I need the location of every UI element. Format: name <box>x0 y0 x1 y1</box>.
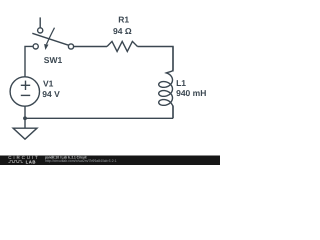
wire: SW1 left terminal to V1 plus <box>25 46 33 77</box>
wire: open stub above SW1 <box>39 17 41 27</box>
footer bar <box>0 156 220 166</box>
junction node <box>23 116 27 120</box>
wire: V1 minus to ground <box>24 106 26 128</box>
svg-text:94 Ω: 94 Ω <box>113 26 132 36</box>
wire: SW1 right terminal to R1 <box>74 46 107 48</box>
svg-text:94 V: 94 V <box>42 89 60 99</box>
switch SW1 <box>32 28 73 50</box>
svg-text:L1: L1 <box>176 78 186 88</box>
svg-text:R1: R1 <box>118 14 129 24</box>
svg-text:SW1: SW1 <box>44 55 63 65</box>
svg-text:940 mH: 940 mH <box>176 88 206 98</box>
svg-text:LAB: LAB <box>26 159 36 164</box>
ground <box>13 128 37 139</box>
wire: L1 to bottom rail <box>172 106 174 119</box>
wire: R1 to top right corner down to L1 <box>138 47 174 72</box>
wire: bottom rail <box>25 117 173 119</box>
voltage source V1 <box>10 77 39 106</box>
svg-text:http://circuitlab.com/c/sat2m/: http://circuitlab.com/c/sat2m/7b99a84/la… <box>45 159 117 163</box>
CircuitLab logo <box>8 155 38 165</box>
footer caption text <box>45 156 117 164</box>
svg-text:V1: V1 <box>43 79 54 89</box>
resistor R1 <box>107 41 138 51</box>
inductor L1 <box>159 47 173 119</box>
